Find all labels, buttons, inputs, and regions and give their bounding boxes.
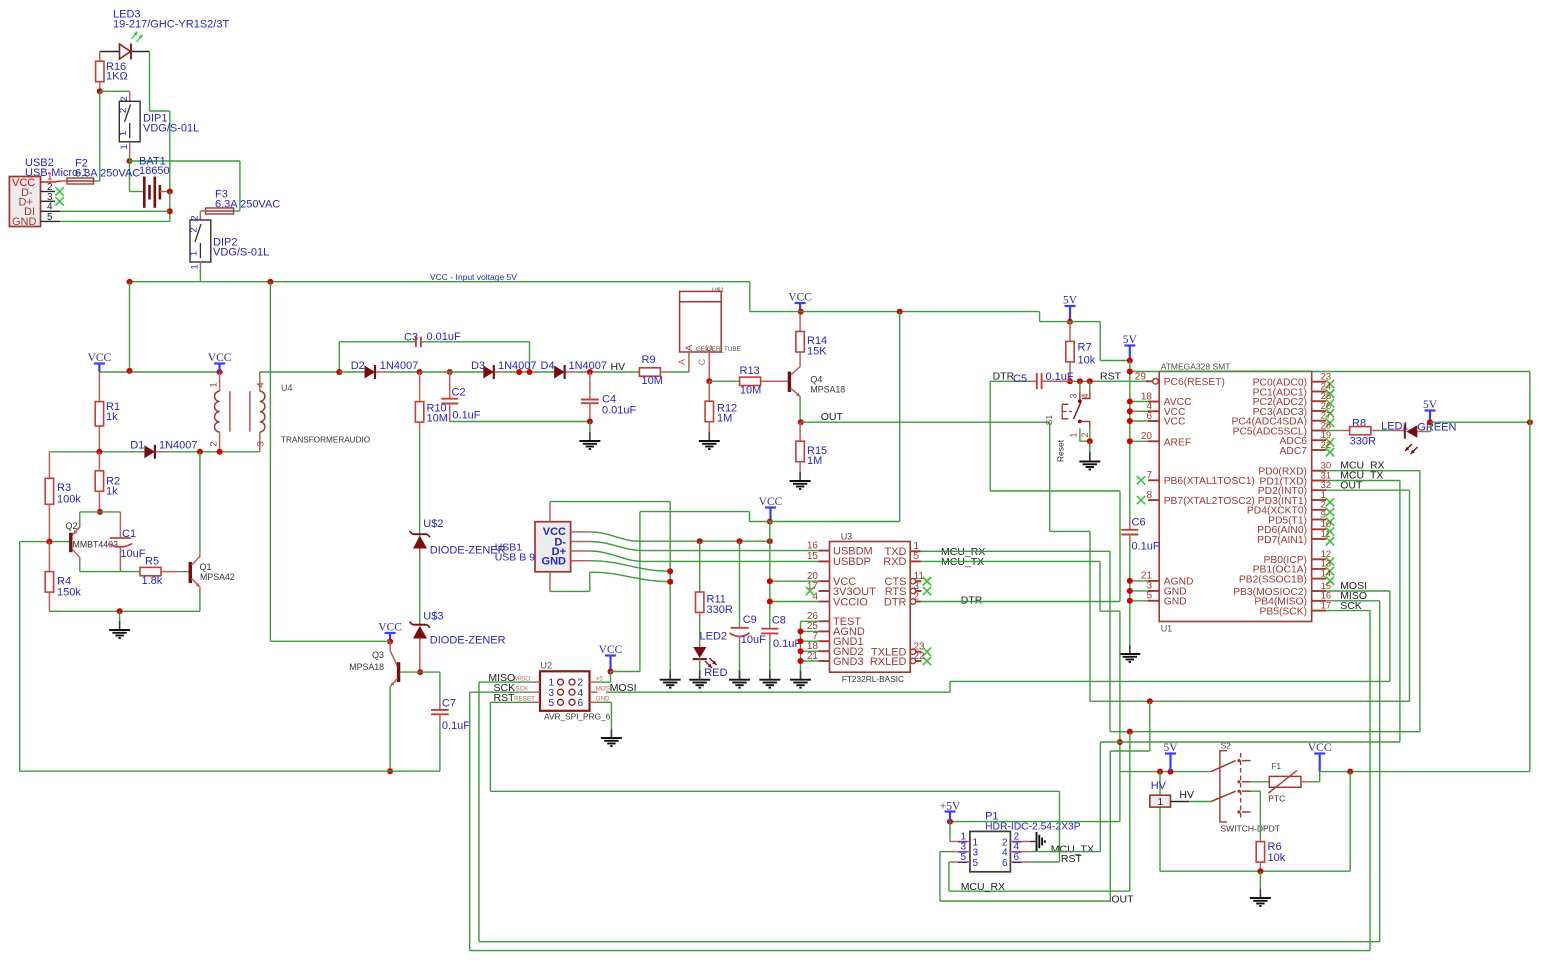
wire SCK bottom bus [469, 692, 471, 950]
svg-text:RXLED: RXLED [870, 656, 907, 668]
node OUT branch [1147, 698, 1153, 704]
svg-text:DTR: DTR [961, 594, 983, 606]
ground symbol 5 under FT232 [800, 670, 802, 680]
svg-text:VDG/S-01L: VDG/S-01L [213, 247, 269, 259]
svg-text:TRANSFORMERAUDIO: TRANSFORMERAUDIO [281, 436, 370, 445]
svg-text:4: 4 [812, 591, 818, 602]
node C2 top [447, 369, 453, 375]
node rail left [127, 279, 133, 285]
node R2 bottom [97, 509, 103, 515]
transformer U4 secondary [259, 372, 261, 391]
resistor R7 [1069, 322, 1071, 342]
svg-text:1.8k: 1.8k [142, 575, 163, 587]
svg-text:10uF: 10uF [741, 634, 766, 646]
svg-text:R5: R5 [145, 556, 159, 568]
wire base corner down [19, 542, 21, 772]
svg-text:2: 2 [209, 441, 220, 446]
wire MCU_RX lane [1110, 731, 1420, 733]
wire Q3 base [400, 671, 440, 673]
ground C4 [589, 422, 591, 433]
node R7 bottom [1067, 378, 1073, 384]
wire R16 to DIP1 [100, 90, 130, 92]
node C4 top [587, 369, 593, 375]
node C3 right [527, 369, 533, 375]
node MCU_RX branch [1127, 729, 1133, 735]
U3 pin 7 GND1 [819, 640, 830, 642]
node xfrm pin1 [217, 369, 223, 375]
node Q3 emitter rail [387, 768, 393, 774]
node U$3 anode [417, 669, 423, 675]
node 5V ATmega [1127, 358, 1133, 364]
node R14 top [798, 309, 804, 315]
svg-text:VCC: VCC [759, 496, 783, 508]
wire Q1 emitter down [199, 592, 201, 611]
svg-text:2: 2 [1080, 432, 1090, 437]
U3 pin 16 USBDM [819, 550, 830, 552]
wire C to R13 [709, 380, 739, 382]
svg-text:D2: D2 [351, 360, 365, 372]
wire VCC line right [1320, 771, 1530, 773]
node VCC-USB vertical [897, 309, 903, 315]
wire Q2 base [20, 541, 69, 543]
wire VCC loop down [1349, 772, 1351, 872]
svg-text:4: 4 [1002, 847, 1008, 858]
wire bottom left rail [20, 770, 440, 772]
ground U2 [610, 729, 612, 738]
wire VCC to rail riser [750, 521, 900, 523]
resistor R6 [1256, 842, 1264, 863]
svg-text:Q4: Q4 [810, 375, 822, 385]
svg-text:DTR: DTR [884, 596, 907, 608]
node C8 top [767, 538, 773, 544]
svg-text:1: 1 [189, 251, 200, 256]
resistor R5 [140, 567, 161, 575]
U3 pin 21 GND3 [819, 660, 830, 662]
node LED1 5V [1427, 419, 1433, 425]
svg-text:AREF: AREF [1164, 437, 1191, 448]
wire MOSI [606, 691, 950, 693]
svg-text:PB5(SCK): PB5(SCK) [1260, 606, 1308, 617]
svg-text:1N4007: 1N4007 [159, 440, 198, 452]
USB1 shell bottom loop [549, 572, 551, 592]
svg-text:1: 1 [1069, 432, 1079, 437]
svg-text:C7: C7 [442, 698, 456, 710]
wire OUT riser [1049, 422, 1051, 531]
wire MISO [479, 681, 532, 683]
LED3 emission arrows [132, 32, 138, 40]
node DI join [167, 208, 173, 214]
wire MCU_RX branch down [1129, 732, 1131, 892]
wire +5V to pin1 [949, 822, 951, 842]
svg-text:5: 5 [548, 698, 554, 709]
ground R12 [708, 432, 710, 441]
wire pin4 to D2 [260, 371, 340, 373]
svg-text:C: C [704, 344, 714, 351]
svg-text:R7: R7 [1078, 342, 1092, 354]
svg-text:5: 5 [960, 852, 966, 863]
svg-text:C9: C9 [743, 614, 757, 626]
svg-text:C6: C6 [1132, 517, 1146, 529]
wire DTR riser [989, 381, 991, 491]
svg-text:0.1uF: 0.1uF [442, 720, 470, 732]
ground symbol 3 under FT232 [739, 670, 741, 680]
P1 pin2 earth symbol [1030, 841, 1037, 843]
svg-text:5V: 5V [1063, 295, 1078, 307]
U2 pin row 1-2 [532, 681, 540, 683]
svg-text:GND: GND [12, 216, 37, 228]
wire C3 left down [338, 342, 340, 372]
svg-text:100k: 100k [57, 494, 81, 506]
node MCU_TX lane [1117, 739, 1123, 745]
svg-text:SWITCH-DPDT: SWITCH-DPDT [1221, 824, 1281, 834]
node VCC stem [767, 519, 773, 525]
wire VCC row [700, 540, 770, 542]
wire USB1 D- curve [590, 542, 820, 551]
node VCC U2 [608, 669, 614, 675]
svg-text:D3: D3 [471, 360, 485, 372]
svg-text:Q2: Q2 [66, 521, 78, 531]
svg-text:1N4007: 1N4007 [380, 360, 419, 372]
wire Q1 collector up [199, 452, 201, 553]
svg-text:330R: 330R [1350, 436, 1376, 448]
node C3 left [336, 369, 342, 375]
svg-text:150k: 150k [57, 587, 81, 599]
node Q1 collector [197, 449, 203, 455]
ground R6 [1259, 871, 1261, 889]
wire pin3 OUT loop [940, 851, 951, 853]
svg-text:1: 1 [190, 264, 201, 269]
wire Q3 emitter down [389, 687, 391, 771]
svg-text:RST: RST [1061, 853, 1083, 865]
node VCC branch [1347, 769, 1353, 775]
svg-text:4: 4 [256, 382, 267, 387]
wire rail down mid [269, 282, 271, 642]
wire MISO bottom bus [478, 682, 480, 942]
resistor R4 [48, 542, 50, 572]
svg-text:U2: U2 [541, 661, 553, 671]
USB1 shell top wire [549, 502, 551, 522]
node VCC Q3 [387, 639, 393, 645]
svg-text:1M: 1M [807, 455, 822, 467]
wire SCK [470, 691, 533, 693]
svg-text:D4: D4 [541, 360, 555, 372]
resistor R3 [45, 478, 53, 504]
wire DIP1 to F3 [130, 160, 240, 162]
wire MCU_TX riser [1099, 561, 1101, 611]
wire 5V supply column [1129, 361, 1131, 522]
svg-text:10uF: 10uF [120, 548, 145, 560]
svg-text:ATMEGA328 SMT: ATMEGA328 SMT [1161, 362, 1231, 372]
svg-text:U$2: U$2 [423, 518, 443, 530]
svg-text:330R: 330R [707, 604, 733, 616]
wire 5V to right edge [1430, 421, 1530, 423]
wire LED3 cathode [132, 51, 150, 53]
svg-text:Q1: Q1 [200, 562, 212, 572]
transistor Q4 [788, 372, 791, 393]
node +5V P1 [947, 819, 953, 825]
svg-text:C: C [697, 358, 707, 365]
wire OUT to right [801, 421, 1050, 423]
transformer U4 primary [219, 372, 221, 391]
svg-text:1: 1 [209, 382, 220, 387]
svg-text:VCC: VCC [88, 352, 112, 364]
svg-text:1M: 1M [717, 413, 732, 425]
svg-text:AVR_SPI_PRG_6: AVR_SPI_PRG_6 [544, 712, 611, 722]
transistor Q3 [389, 642, 391, 651]
svg-text:PB7(XTAL2TOSC2): PB7(XTAL2TOSC2) [1164, 496, 1255, 507]
USB1 pin stubs [571, 531, 590, 533]
node C4 bottom [587, 419, 593, 425]
node R16-DIP1 [97, 88, 103, 94]
svg-text:5V: 5V [1423, 399, 1438, 411]
svg-text:R9: R9 [642, 354, 656, 366]
svg-text:0.1uF: 0.1uF [1132, 541, 1160, 553]
svg-text:LED2: LED2 [700, 631, 728, 643]
svg-text:10M: 10M [740, 385, 761, 397]
wire bottom gnd rail [49, 610, 200, 612]
node S1 pin3 [1077, 378, 1083, 384]
transistor Q1 [188, 571, 191, 573]
wire pin6 RST [1030, 861, 1060, 863]
node xfrm pin2 [217, 449, 223, 455]
wire USB1 VCC curve [590, 532, 700, 541]
svg-text:PD7(AIN1): PD7(AIN1) [1257, 535, 1307, 546]
wire R16 down to F2 [99, 91, 101, 181]
node C-R13-R12 [706, 378, 712, 384]
wire C2 bottom to C4 [450, 421, 590, 423]
wire VCC to U2 branch [749, 512, 751, 522]
svg-text:HV: HV [1151, 780, 1167, 792]
wire MCU_TX lane [1100, 741, 1400, 743]
wire Q4 emitter OUT [799, 401, 801, 422]
switch DIP1 [129, 91, 131, 101]
svg-text:HV: HV [611, 361, 626, 373]
P1 pin row 1-2 [951, 841, 970, 843]
capacitor C7 [439, 672, 441, 702]
svg-text:PB6(XTAL1TOSC1): PB6(XTAL1TOSC1) [1164, 476, 1255, 487]
resistor R1 [98, 372, 100, 402]
switch DIP2 [190, 220, 211, 262]
svg-text:GND: GND [1164, 597, 1187, 608]
wire DTR to C5 [990, 380, 1030, 382]
svg-text:PC6(RESET): PC6(RESET) [1164, 377, 1225, 388]
resistor R12 [708, 381, 710, 401]
node C9 top [737, 538, 743, 544]
wire S2 left loop down [1159, 772, 1161, 796]
svg-text:VCC: VCC [208, 352, 232, 364]
wire S2 to F1 [1251, 781, 1270, 783]
svg-text:Q3: Q3 [372, 650, 384, 660]
wire VCC rail right [749, 282, 751, 312]
node 5V R7 [1067, 319, 1073, 325]
wire VCC1 row [99, 371, 219, 373]
svg-text:0.1uF: 0.1uF [773, 638, 801, 650]
U3 pin 25 AGND [819, 630, 830, 632]
svg-text:10M: 10M [642, 375, 663, 387]
svg-text:6: 6 [578, 698, 584, 709]
wire MCU_TX to P1 [1099, 742, 1101, 852]
svg-text:15: 15 [807, 551, 819, 562]
wire top right loop [1159, 371, 1530, 373]
U3 pin 15 USBDP [819, 560, 830, 562]
transistor Q2 [79, 522, 81, 527]
node S1 gnd [1087, 438, 1093, 444]
ground U1 [1129, 645, 1131, 654]
P1 pin row 3-4 [951, 851, 970, 853]
wire zener chain [419, 556, 421, 625]
svg-text:21: 21 [807, 651, 819, 662]
wire pin5 MCU_RX loop [949, 861, 951, 863]
svg-text:PTC: PTC [1268, 794, 1285, 804]
svg-text:U1: U1 [1161, 624, 1173, 634]
node 5V S2 stem [1168, 769, 1174, 775]
wire RST [490, 701, 532, 703]
svg-text:3: 3 [256, 441, 267, 446]
svg-text:3: 3 [960, 842, 966, 853]
node right edge [1527, 419, 1533, 425]
wire LED3 anode [100, 51, 120, 53]
wire R10 to zener [419, 431, 421, 536]
svg-text:A: A [677, 359, 687, 365]
svg-text:HV: HV [1179, 789, 1194, 801]
svg-text:C2: C2 [452, 387, 466, 399]
ground symbol 4 under FT232 [769, 670, 771, 680]
wire S2 pole2 to R6 [1251, 790, 1261, 792]
svg-text:R13: R13 [740, 365, 760, 377]
wire R3 corner [48, 452, 50, 479]
svg-text:5V: 5V [1163, 742, 1178, 754]
svg-text:MCU_RX: MCU_RX [961, 881, 1005, 893]
U$1 pin C [708, 352, 710, 381]
svg-text:U$3: U$3 [423, 611, 443, 623]
svg-text:10k: 10k [1078, 355, 1096, 367]
connector USB2 [9, 177, 40, 227]
svg-text:1k: 1k [106, 486, 118, 498]
svg-text:29: 29 [1135, 371, 1147, 382]
wire RST lane from U2 [489, 702, 491, 791]
resistor R14 [799, 312, 801, 332]
U3 pin 26 TEST [819, 620, 830, 622]
ground S1 [1089, 441, 1091, 452]
svg-text:U$1: U$1 [712, 287, 724, 294]
svg-text:18650: 18650 [139, 165, 170, 177]
svg-text:MPSA42: MPSA42 [200, 572, 235, 582]
wire USB1 D+ curve [590, 551, 820, 561]
svg-text:0.1uF: 0.1uF [1046, 371, 1074, 383]
svg-text:1: 1 [118, 131, 129, 136]
svg-text:Reset: Reset [1056, 439, 1066, 462]
node S1 pin4 [1087, 378, 1093, 384]
svg-text:1k: 1k [106, 411, 118, 423]
wire 5V down to P1 [1119, 772, 1121, 822]
svg-text:VCC: VCC [1308, 742, 1332, 754]
svg-text:3: 3 [973, 847, 979, 858]
node shell GND2 [667, 579, 673, 585]
node 5V S2 a [1157, 769, 1163, 775]
ground R15 [799, 471, 801, 474]
ground osc [119, 611, 121, 621]
ground symbol 2 under FT232 [699, 670, 701, 680]
svg-text:2: 2 [190, 215, 201, 220]
LED D1 LED3 [120, 44, 131, 59]
svg-text:VCC: VCC [788, 292, 812, 304]
svg-text:2: 2 [119, 96, 130, 101]
svg-text:S2: S2 [1221, 741, 1232, 751]
node DIP1-BAT1 [127, 158, 133, 164]
svg-text:USB B 90: USB B 90 [495, 552, 541, 564]
svg-text:1: 1 [47, 172, 53, 183]
svg-text:15K: 15K [807, 346, 827, 358]
svg-text:GND3: GND3 [833, 656, 864, 668]
svg-text:6: 6 [1002, 858, 1008, 869]
svg-text:A: A [684, 345, 694, 351]
wire 5V S2 lane [1148, 771, 1150, 773]
node gnd mid [117, 608, 123, 614]
resistor R10 [419, 372, 421, 402]
svg-text:D1: D1 [130, 440, 144, 452]
svg-text:VCC: VCC [378, 622, 402, 634]
svg-text:0.1uF: 0.1uF [452, 410, 480, 422]
svg-text:R3: R3 [57, 482, 71, 494]
transformer U4 core [229, 391, 231, 432]
node BAT1 right [167, 189, 173, 195]
svg-text:GEIGER_TUBE: GEIGER_TUBE [696, 346, 741, 353]
svg-text:RXD: RXD [883, 556, 906, 568]
node rail mid [267, 279, 273, 285]
svg-text:OUT: OUT [821, 411, 844, 423]
wire rail to 5V [1039, 312, 1041, 322]
svg-text:1: 1 [1157, 797, 1163, 808]
resistor R16 [99, 52, 101, 62]
svg-text:1: 1 [119, 144, 130, 149]
node base-R3R4 [46, 539, 52, 545]
svg-text:10k: 10k [1268, 852, 1286, 864]
svg-text:FT232RL-BASIC: FT232RL-BASIC [842, 674, 904, 684]
svg-text:4: 4 [1080, 393, 1090, 398]
svg-text:VCC - Input voltage 5V: VCC - Input voltage 5V [430, 272, 517, 282]
U2 pin row 5-6 [532, 701, 540, 703]
resistor R2 [98, 452, 100, 471]
svg-text:16: 16 [807, 540, 819, 551]
wire cathode down [149, 52, 151, 112]
svg-text:RED: RED [704, 667, 727, 679]
svg-text:4: 4 [1014, 842, 1020, 853]
node after D3 [516, 369, 522, 375]
wire rail down left [129, 282, 131, 371]
capacitor C4 [589, 372, 591, 399]
wire 5V jog to S2 [1120, 771, 1150, 773]
svg-text:5V: 5V [1123, 334, 1138, 346]
resistor R15 [799, 422, 801, 441]
svg-text:3: 3 [1069, 393, 1079, 398]
wire MCU_RX riser [1109, 551, 1111, 731]
wire R6 gnd rail [1160, 870, 1350, 872]
node R6 bottom [1257, 868, 1263, 874]
svg-text:VCC: VCC [599, 644, 623, 656]
svg-text:VCC: VCC [1164, 417, 1186, 428]
U3 pin 17 3V3OUT [819, 590, 830, 592]
svg-text:VDG/S-01L: VDG/S-01L [143, 123, 199, 135]
svg-text:F1: F1 [1271, 761, 1281, 771]
wire battery to DI/GND [169, 192, 171, 222]
wire 5V to box corner [1130, 371, 1159, 373]
svg-text:PB2(SSOC1B): PB2(SSOC1B) [1239, 574, 1307, 585]
svg-text:U3: U3 [841, 532, 853, 542]
svg-text:USBDP: USBDP [833, 556, 871, 568]
ground symbol 1 under FT232 [669, 670, 671, 680]
U2 pin row 3-4 [532, 691, 540, 693]
U3 pin 18 GND2 [819, 650, 830, 652]
